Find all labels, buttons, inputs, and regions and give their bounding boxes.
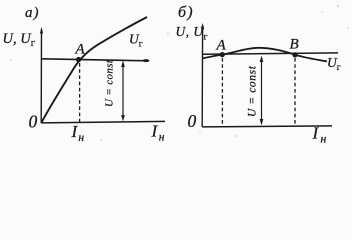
horizontal line U=const (left) <box>42 59 150 61</box>
right x-axis <box>202 126 332 127</box>
svg-text:б): б) <box>178 4 194 21</box>
point A (left) <box>76 57 81 62</box>
horizontal line U=const (right) <box>203 53 338 54</box>
svg-text:A: A <box>216 38 227 54</box>
paper background <box>0 0 352 146</box>
point A (right) <box>220 52 225 57</box>
svg-text:B: B <box>290 37 299 53</box>
ink blob at right end of U=const line (left) <box>143 59 150 62</box>
faint scan specks <box>10 5 349 141</box>
left x-axis <box>41 121 165 123</box>
svg-text:а): а) <box>25 5 40 21</box>
dashed line at Iн (left) <box>79 63 81 122</box>
dashed line at A (right) <box>221 58 223 126</box>
point B (right) <box>292 52 297 57</box>
curve Uг (right) <box>203 48 327 62</box>
svg-text:0: 0 <box>29 112 38 132</box>
left y-axis <box>40 27 43 123</box>
svg-text:U = const: U = const <box>247 65 259 117</box>
svg-text:A: A <box>75 42 86 58</box>
double arrow U=const (right) <box>260 56 264 126</box>
curve Uг (left) <box>41 17 147 123</box>
right y-axis <box>201 23 204 127</box>
double arrow U=const (left) <box>121 61 125 122</box>
svg-text:0: 0 <box>188 111 197 131</box>
dashed line at B (right) <box>294 58 296 126</box>
svg-text:U = const: U = const <box>104 59 116 107</box>
